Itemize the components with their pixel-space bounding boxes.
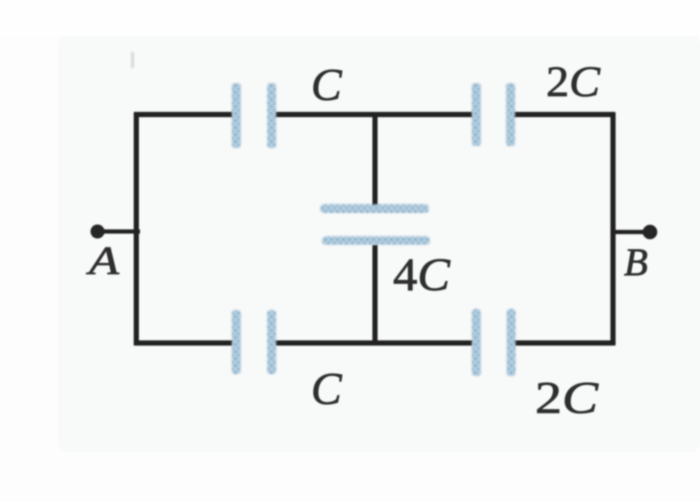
svg-text:C: C: [311, 59, 343, 110]
svg-text:B: B: [624, 241, 648, 284]
svg-text:2C: 2C: [535, 373, 599, 423]
svg-text:4C: 4C: [393, 249, 451, 301]
svg-text:C: C: [311, 363, 343, 414]
svg-text:A: A: [85, 238, 119, 283]
svg-text:2C: 2C: [546, 59, 601, 106]
